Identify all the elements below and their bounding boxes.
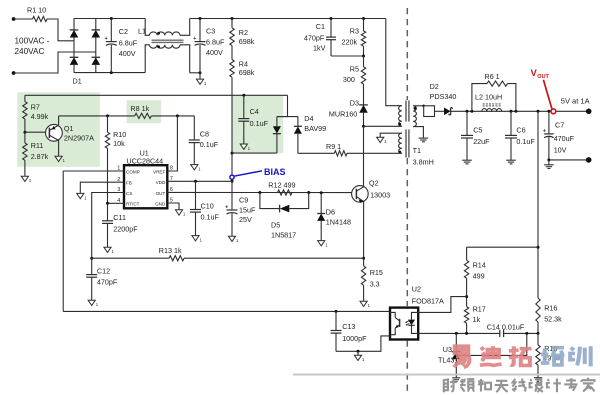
- svg-text:220k: 220k: [342, 38, 358, 47]
- wire Q1 collector down: [58, 140, 60, 156]
- node R14-R17 junction: [465, 295, 468, 298]
- watermark char di: [480, 346, 502, 365]
- label D4: [304, 114, 326, 133]
- ground below C11: [104, 247, 115, 254]
- diode D1 upper-right: [92, 30, 101, 38]
- wire bus bottom to C3: [190, 72, 200, 74]
- node T1 secondary phase dot: [414, 107, 417, 110]
- svg-text:300: 300: [343, 75, 355, 84]
- wire bus bottom rail: [74, 72, 145, 74]
- wire R1 to bridge input: [47, 19, 74, 41]
- svg-text:RT/CT: RT/CT: [126, 202, 140, 207]
- wire box to D2: [435, 110, 445, 112]
- node C5 junction: [466, 110, 469, 113]
- ground below R18: [534, 378, 542, 382]
- node C7 ground junction: [547, 158, 550, 161]
- wire COMP line down: [62, 171, 64, 311]
- node R3-R5 junction: [362, 55, 365, 58]
- svg-text:3.8mH: 3.8mH: [413, 158, 434, 167]
- svg-text:L2 10uH: L2 10uH: [475, 93, 502, 102]
- optocoupler U2 FOD817A box: [390, 285, 444, 340]
- wire R14 top: [467, 246, 538, 248]
- optocoupler U2 phototransistor: [390, 312, 400, 334]
- ground below Q1 collector: [55, 156, 66, 163]
- watermark small char 4: [495, 381, 509, 392]
- node C6 junction: [510, 110, 513, 113]
- wire VREF branch down to pin 8: [167, 116, 177, 171]
- U1 pin numbers: [117, 166, 173, 204]
- diode D1 lower-right: [92, 57, 101, 65]
- isolation boundary dashed line: [406, 8, 408, 391]
- resistor R4: [230, 53, 255, 96]
- wire pin4 RT/CT: [108, 202, 125, 204]
- wire R8 to C8 corner: [151, 115, 194, 117]
- svg-text:6.8uF: 6.8uF: [119, 38, 138, 47]
- svg-text:10V: 10V: [554, 146, 567, 155]
- svg-text:R1 10: R1 10: [27, 5, 46, 14]
- ground below C3: [196, 79, 207, 86]
- ground below C12: [88, 300, 99, 307]
- svg-text:R17: R17: [473, 305, 486, 314]
- capacitor C10: [190, 181, 219, 235]
- svg-text:4.99k: 4.99k: [31, 112, 49, 121]
- resistor R1: [27, 5, 47, 21]
- svg-text:1k: 1k: [473, 315, 481, 324]
- svg-text:OUT: OUT: [156, 191, 166, 196]
- wire C13 bottom to opto emitter: [336, 336, 390, 351]
- optocoupler U2 LED: [408, 312, 418, 333]
- node R14 top junction: [537, 246, 540, 249]
- svg-text:698k: 698k: [239, 37, 255, 46]
- wire switch node to T1 primary bottom: [364, 125, 402, 127]
- svg-text:C7: C7: [555, 121, 564, 130]
- watermark small char 6: [530, 379, 543, 392]
- svg-text:13003: 13003: [370, 190, 390, 199]
- ground FB: [77, 193, 88, 200]
- svg-text:D5: D5: [271, 221, 280, 230]
- optocoupler U2 light arrows: [405, 321, 409, 326]
- node D4 output junction: [231, 152, 234, 155]
- watermark small char 7: [547, 379, 561, 393]
- svg-text:Q2: Q2: [369, 179, 379, 188]
- svg-text:+: +: [543, 128, 546, 134]
- watermark small char 9: [582, 378, 595, 392]
- svg-text:8: 8: [170, 166, 173, 172]
- resistor R8: [130, 104, 151, 119]
- wire T1 bias top to ground: [380, 133, 402, 137]
- label BIAS: [264, 167, 286, 177]
- diode D1 lower-left: [70, 57, 79, 65]
- svg-text:R15: R15: [370, 268, 383, 277]
- svg-text:C11: C11: [113, 213, 126, 222]
- svg-text:Q1: Q1: [64, 124, 74, 133]
- wire pin1 COMP: [63, 170, 124, 172]
- node RT/CT junction: [106, 202, 109, 205]
- svg-text:+: +: [193, 36, 196, 42]
- svg-text:C5: C5: [473, 126, 482, 135]
- node R3 top junction: [362, 17, 365, 20]
- shunt reference U3 TL431: [438, 333, 461, 377]
- node R13 junction left: [90, 257, 93, 260]
- ground below D6: [318, 241, 329, 248]
- wire R13 line: [92, 257, 364, 259]
- svg-text:15uF: 15uF: [239, 205, 256, 214]
- svg-text:GND: GND: [155, 201, 166, 206]
- ground below C13: [354, 351, 365, 362]
- svg-text:400V: 400V: [206, 48, 223, 57]
- wire secondary rail: [451, 110, 589, 112]
- wire T1 secondary top to snub box: [413, 105, 424, 107]
- node divider bottom junction: [537, 332, 540, 335]
- watermark divider rule: [293, 374, 600, 376]
- wire Q2 collector join: [363, 185, 365, 188]
- svg-text:+: +: [105, 36, 108, 42]
- wire startup line to VDD node: [231, 153, 233, 181]
- ground below C7: [544, 160, 554, 169]
- label D1: [73, 77, 82, 86]
- node output return terminal: [586, 157, 592, 163]
- svg-text:BIAS: BIAS: [264, 167, 286, 177]
- svg-text:U3: U3: [443, 345, 452, 354]
- ground GND pin: [175, 210, 186, 217]
- svg-text:C9: C9: [239, 196, 248, 205]
- svg-text:R6 1: R6 1: [485, 72, 500, 81]
- resistor R2: [230, 19, 255, 53]
- wire D5 loop left: [260, 193, 280, 209]
- wire Q2 collector line: [363, 126, 365, 186]
- svg-text:2200pF: 2200pF: [113, 225, 138, 234]
- capacitor C7: [543, 111, 575, 160]
- ground below C4: [240, 144, 251, 151]
- resistor R3: [342, 19, 366, 57]
- diode D3: [329, 98, 368, 126]
- node ref junction: [525, 332, 528, 335]
- svg-text:R12 499: R12 499: [268, 180, 295, 189]
- ground below C10: [192, 236, 203, 243]
- svg-text:100VAC -: 100VAC -: [15, 37, 50, 46]
- transformer T1 secondary winding: [413, 106, 416, 127]
- svg-text:C6: C6: [516, 126, 525, 135]
- node VREF branch junction: [176, 114, 179, 117]
- label T1: [413, 146, 434, 167]
- node C13 ground junction: [357, 350, 360, 353]
- svg-text:R11: R11: [31, 141, 44, 150]
- svg-text:C14 0.01uF: C14 0.01uF: [487, 322, 525, 331]
- watermark char xun: [570, 346, 591, 366]
- node R10 top junction: [106, 114, 109, 117]
- wire T1 bias bottom to R9: [347, 152, 402, 154]
- wire pin6 OUT: [167, 191, 356, 193]
- resistor R9: [326, 142, 347, 156]
- callout line VOUT: [543, 80, 552, 109]
- diode D2 PDS340: [430, 82, 457, 115]
- svg-text:OUT: OUT: [537, 74, 549, 80]
- node L1 bottom phase dot: [157, 45, 160, 48]
- node VDD junction: [231, 180, 234, 183]
- svg-text:R3: R3: [350, 27, 359, 36]
- watermark small char 8: [564, 378, 577, 391]
- wire T1 secondary bottom to ground: [413, 127, 423, 138]
- svg-text:T1: T1: [413, 146, 421, 155]
- wire pin2 FB: [80, 182, 124, 193]
- wire Q1 emitter up: [58, 116, 60, 125]
- wire divider line down: [537, 111, 539, 298]
- svg-text:470pF: 470pF: [304, 33, 325, 42]
- inductor L2: [475, 93, 502, 112]
- svg-text:499: 499: [473, 271, 485, 280]
- capacitor C4: [238, 95, 268, 144]
- component sense box: [424, 106, 435, 117]
- diode D5: [271, 205, 296, 240]
- ground below C9: [228, 236, 239, 243]
- svg-text:C12: C12: [97, 266, 110, 275]
- inductor L1 bottom winding: [150, 45, 181, 48]
- transistor Q1 2N2907A: [46, 124, 95, 142]
- wire D4 tee bar: [277, 116, 298, 118]
- wire into L1 bottom: [145, 45, 149, 73]
- bridge D1 right column wire: [95, 19, 97, 73]
- svg-text:0.1uF: 0.1uF: [200, 140, 219, 149]
- resistor R5: [343, 56, 366, 105]
- svg-text:UCC28C44: UCC28C44: [126, 156, 163, 165]
- inductor L1 label: [138, 26, 146, 35]
- svg-text:D1: D1: [73, 77, 82, 86]
- node switch node junction: [362, 125, 365, 128]
- resistor R10: [105, 116, 126, 203]
- ground below C8: [191, 165, 202, 172]
- capacitor C13: [331, 311, 368, 351]
- wire pin7 VDD: [167, 180, 232, 182]
- wire Q1 base: [25, 131, 50, 133]
- wire L1 bottom out: [180, 45, 190, 73]
- wire D5 loop right: [289, 193, 308, 209]
- label VOUT: [531, 68, 550, 80]
- ground below R15: [360, 301, 371, 308]
- svg-text:R5: R5: [350, 65, 359, 74]
- node T1 primary phase dot: [398, 123, 401, 126]
- svg-text:VREF: VREF: [153, 169, 165, 174]
- wire output return: [549, 159, 589, 161]
- svg-text:R8 1k: R8 1k: [130, 104, 149, 113]
- node C1 top junction: [330, 17, 333, 20]
- wire TL431 ref: [459, 333, 527, 355]
- capacitor C5: [461, 111, 490, 160]
- transformer T1 bias winding: [399, 133, 402, 153]
- wire C1 bottom to R3 bottom: [331, 55, 364, 57]
- resistor R6 bypass loop: [472, 72, 516, 111]
- svg-text:C4: C4: [250, 107, 259, 116]
- diode D6: [317, 193, 351, 241]
- svg-text:1000pF: 1000pF: [342, 334, 367, 343]
- svg-text:1N5817: 1N5817: [271, 230, 296, 239]
- capacitor C6: [505, 111, 535, 160]
- svg-text:R13 1k: R13 1k: [159, 246, 182, 255]
- node output terminal: [586, 109, 592, 115]
- wire opto anode to R14 node: [418, 297, 466, 313]
- wire bias rail: [25, 94, 288, 96]
- svg-text:+: +: [225, 204, 228, 210]
- node C7 junction: [547, 110, 550, 113]
- resistor R16: [536, 298, 562, 333]
- node divider tap junction: [537, 110, 540, 113]
- node AC input top terminal: [12, 17, 16, 21]
- wire into L1 top: [145, 19, 149, 36]
- svg-text:D2: D2: [430, 82, 439, 91]
- capacitor C2: [105, 19, 138, 73]
- watermark small char 5: [512, 379, 526, 392]
- wire bus top rail: [74, 18, 145, 20]
- highlight box around C4: [232, 96, 283, 153]
- svg-text:C13: C13: [342, 322, 355, 331]
- svg-text:C8: C8: [200, 130, 209, 139]
- node T1 bias phase dot: [398, 151, 401, 154]
- svg-text:C1: C1: [316, 22, 325, 31]
- node C2 top junction: [110, 17, 113, 20]
- node secondary top corner dot: [422, 105, 425, 108]
- resistor R13: [159, 246, 184, 261]
- svg-text:R4: R4: [239, 60, 248, 69]
- node R2 top junction: [231, 17, 234, 20]
- ground secondary winding: [419, 138, 429, 142]
- wire D4 left to startup line: [232, 152, 277, 154]
- diode D1 upper-left: [70, 30, 79, 38]
- svg-text:3.3: 3.3: [370, 280, 380, 289]
- node AC input bottom terminal: [12, 71, 16, 75]
- wire startup line down: [231, 95, 233, 153]
- svg-text:FOD817A: FOD817A: [412, 297, 444, 306]
- svg-text:C10: C10: [201, 202, 214, 211]
- svg-text:2.87k: 2.87k: [31, 152, 49, 161]
- wire VREF rail: [59, 115, 135, 117]
- svg-text:1kV: 1kV: [313, 43, 326, 52]
- resistor R12: [268, 180, 295, 195]
- node L1 top phase dot: [157, 32, 160, 35]
- resistor R14: [464, 247, 485, 296]
- diode D4 left half: [273, 117, 281, 154]
- watermark char tuo: [509, 346, 532, 365]
- resistor R11: [23, 132, 49, 176]
- node C10 top junction: [194, 180, 197, 183]
- svg-text:52.3k: 52.3k: [544, 315, 562, 324]
- svg-text:0.1uF: 0.1uF: [250, 119, 269, 128]
- svg-text:R2: R2: [239, 28, 248, 37]
- svg-text:R7: R7: [31, 103, 40, 112]
- node D6 junction: [320, 191, 323, 194]
- svg-text:470pF: 470pF: [97, 278, 118, 287]
- svg-text:470uF: 470uF: [554, 134, 575, 143]
- capacitor C11: [102, 203, 138, 247]
- highlight box around R8: [127, 100, 162, 123]
- svg-text:0.1uF: 0.1uF: [201, 213, 220, 222]
- diode D4 right half: [294, 117, 302, 154]
- svg-text:25V: 25V: [239, 215, 252, 224]
- U1 pin names: [126, 169, 166, 206]
- ground below TL431: [452, 378, 460, 382]
- wire COMP to opto: [63, 310, 390, 312]
- svg-text:R14: R14: [473, 261, 486, 270]
- node TL431 cathode junction: [455, 332, 458, 335]
- label 100VAC-240VAC input: [15, 37, 50, 56]
- highlight box around Q1 group: [17, 92, 100, 167]
- capacitor C12: [86, 258, 118, 300]
- node BIAS marker: [230, 175, 234, 179]
- svg-text:22uF: 22uF: [473, 137, 490, 146]
- wire R9 to D4: [298, 152, 334, 154]
- transistor Q2 13003: [352, 179, 391, 203]
- inductor L1 core: [152, 40, 184, 42]
- svg-text:C2: C2: [119, 27, 128, 36]
- node C2 bottom junction: [110, 71, 113, 74]
- svg-text:6.8uF: 6.8uF: [206, 38, 225, 47]
- node R6 left junction: [470, 110, 473, 113]
- transformer T1 primary winding: [399, 106, 402, 127]
- wire TL431 rail: [456, 332, 538, 334]
- bridge D1 left column wire: [73, 19, 75, 73]
- svg-text:R10: R10: [113, 130, 126, 139]
- svg-text:U2: U2: [412, 285, 421, 294]
- svg-text:R9 1: R9 1: [326, 142, 341, 151]
- watermark small char 1: [443, 379, 456, 392]
- svg-text:D3: D3: [350, 98, 359, 107]
- inductor L1 top winding: [150, 32, 181, 35]
- svg-text:FB: FB: [126, 181, 132, 186]
- ground below bias winding top: [377, 137, 388, 144]
- wire AC bottom to bridge: [14, 52, 96, 73]
- watermark char pei: [541, 348, 565, 365]
- wire bias rail corner down to D4 tap: [277, 95, 288, 116]
- watermark char yi: [454, 346, 470, 367]
- op IC U1 UCC28C44 box: [124, 148, 167, 208]
- svg-text:VDD: VDD: [156, 180, 166, 185]
- svg-text:D6: D6: [326, 207, 335, 216]
- wire L1 top out: [180, 19, 190, 36]
- capacitor C8: [189, 116, 219, 164]
- svg-text:R16: R16: [544, 304, 557, 313]
- ground below C5: [462, 160, 472, 164]
- node VOUT marker: [551, 109, 556, 114]
- node R13 junction right: [362, 257, 365, 260]
- wire HV top rail: [190, 18, 386, 20]
- node C3 top junction: [199, 17, 202, 20]
- ground below C6: [506, 160, 516, 164]
- svg-text:PDS340: PDS340: [430, 92, 457, 101]
- svg-text:D4: D4: [304, 114, 313, 123]
- node R17 bottom junction: [465, 332, 468, 335]
- node R6 right junction: [514, 110, 517, 113]
- svg-text:1N4148: 1N4148: [326, 218, 351, 227]
- capacitor C14: [487, 322, 525, 337]
- node D5 left junction: [258, 191, 261, 194]
- svg-text:0.1uF: 0.1uF: [516, 137, 535, 146]
- resistor R18: [536, 333, 561, 377]
- wire opto cathode to TL431: [418, 332, 456, 334]
- svg-text:MUR160: MUR160: [329, 110, 357, 119]
- watermark small char 2: [460, 379, 474, 392]
- svg-text:BAV99: BAV99: [304, 124, 326, 133]
- wire HV rail to T1 primary top: [386, 19, 402, 106]
- resistor R17: [464, 297, 485, 333]
- wire pin5 GND: [167, 203, 179, 210]
- wire AC top to R1: [14, 18, 33, 20]
- capacitor C1: [304, 19, 336, 57]
- node D5 right junction: [307, 191, 310, 194]
- svg-text:5V at 1A: 5V at 1A: [561, 96, 590, 105]
- svg-text:698k: 698k: [239, 68, 255, 77]
- svg-text:2N2907A: 2N2907A: [64, 133, 94, 142]
- node C3 bottom junction: [199, 71, 202, 74]
- svg-text:C3: C3: [206, 26, 215, 35]
- ground below R11: [21, 176, 32, 183]
